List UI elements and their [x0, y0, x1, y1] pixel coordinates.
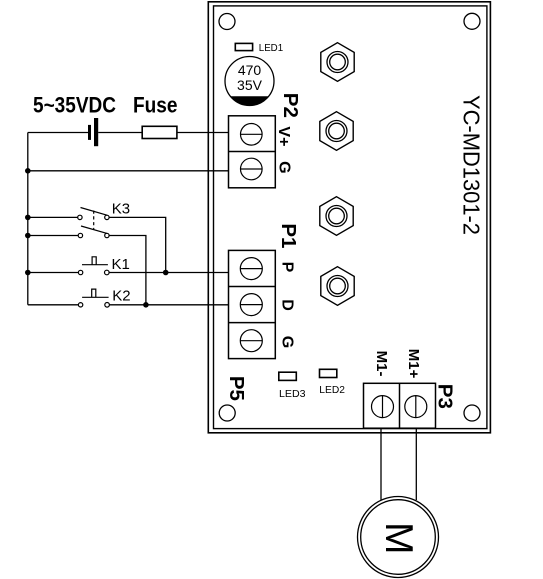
board outer outline [208, 2, 490, 433]
junction bus-G [25, 168, 31, 174]
LED2 [320, 369, 337, 377]
svg-text:G: G [279, 336, 296, 348]
wire bus to K2 [28, 304, 79, 306]
hex standoff 2 [320, 112, 353, 151]
hex standoff 4 [321, 267, 354, 306]
svg-text:5~35VDC: 5~35VDC [33, 92, 116, 117]
wire bus to K1 [28, 272, 79, 274]
svg-text:M1+: M1+ [405, 349, 422, 379]
svg-text:D: D [279, 299, 296, 311]
svg-text:K1: K1 [112, 256, 130, 273]
switch K2 (pushbutton) [78, 289, 109, 307]
wire left bus [27, 133, 29, 305]
wire K3a to node A [109, 217, 166, 272]
svg-text:M1-: M1- [373, 351, 390, 377]
battery B1 negative plate [88, 125, 91, 140]
screw terminal P3-M1+ [405, 396, 427, 418]
mounting hole top-right [464, 13, 480, 29]
svg-text:P: P [279, 262, 296, 273]
svg-text:P3: P3 [434, 384, 457, 409]
board inner outline [214, 6, 487, 429]
svg-text:35V: 35V [237, 77, 263, 93]
wire P3 M1- to motor [380, 428, 382, 500]
capacitor C1 polarity stripe [230, 96, 269, 105]
mounting hole top-left [219, 14, 235, 30]
svg-text:M: M [377, 522, 420, 554]
svg-text:V+: V+ [275, 126, 292, 146]
capacitor C1 body [225, 57, 274, 106]
svg-text:P1: P1 [277, 223, 300, 248]
wire battery to fuse [98, 132, 142, 134]
svg-text:K3: K3 [112, 200, 130, 217]
hex standoff 1 [321, 43, 354, 82]
svg-text:LED3: LED3 [279, 388, 306, 400]
screw terminal P3-M1- [372, 396, 394, 418]
svg-text:470: 470 [238, 62, 262, 78]
mounting hole bottom-left [219, 405, 235, 421]
wire fuse to P2 V+ [177, 132, 229, 134]
junction node B [143, 302, 149, 308]
wire K2 to P1 D [109, 304, 228, 306]
wire battery to bus [28, 132, 88, 134]
motor M outer circle [358, 497, 439, 578]
screw terminal P1-G [240, 330, 262, 352]
wire K3b to node B [109, 236, 146, 305]
mounting hole bottom-right [464, 405, 480, 421]
svg-text:P2: P2 [279, 93, 302, 118]
svg-text:G: G [276, 161, 293, 173]
terminal block P1 [229, 250, 276, 358]
junction node A [163, 270, 169, 276]
svg-text:Fuse: Fuse [133, 92, 178, 117]
svg-text:LED1: LED1 [259, 42, 283, 54]
wire bus to P2 G [28, 170, 229, 172]
junction bus-K1 [25, 270, 31, 276]
terminal block P3 [364, 383, 436, 428]
svg-text:LED2: LED2 [319, 384, 345, 396]
screw terminal P2-G [241, 158, 263, 180]
junction bus-K3a [25, 215, 31, 221]
fuse F1 [142, 126, 177, 138]
screw terminal P2-V+ [241, 124, 263, 146]
LED1 [235, 43, 252, 50]
terminal block P2 [229, 116, 276, 188]
svg-text:P5: P5 [225, 376, 248, 401]
junction bus-K3b [25, 233, 31, 239]
screw terminal P1-P [240, 258, 262, 280]
svg-text:YC-MD1301-2: YC-MD1301-2 [459, 95, 485, 235]
motor M inner circle [361, 500, 436, 575]
switch K1 (pushbutton) [78, 257, 109, 275]
wire P3 M1+ to motor [415, 428, 417, 500]
svg-text:K2: K2 [112, 288, 130, 305]
hex standoff 3 [320, 197, 353, 236]
screw terminal P1-D [240, 294, 262, 316]
switch K3 (DPST) [28, 208, 109, 238]
battery B1 positive plate [94, 118, 98, 146]
wire K1 to P1 P [109, 272, 229, 274]
LED3 [279, 372, 297, 380]
